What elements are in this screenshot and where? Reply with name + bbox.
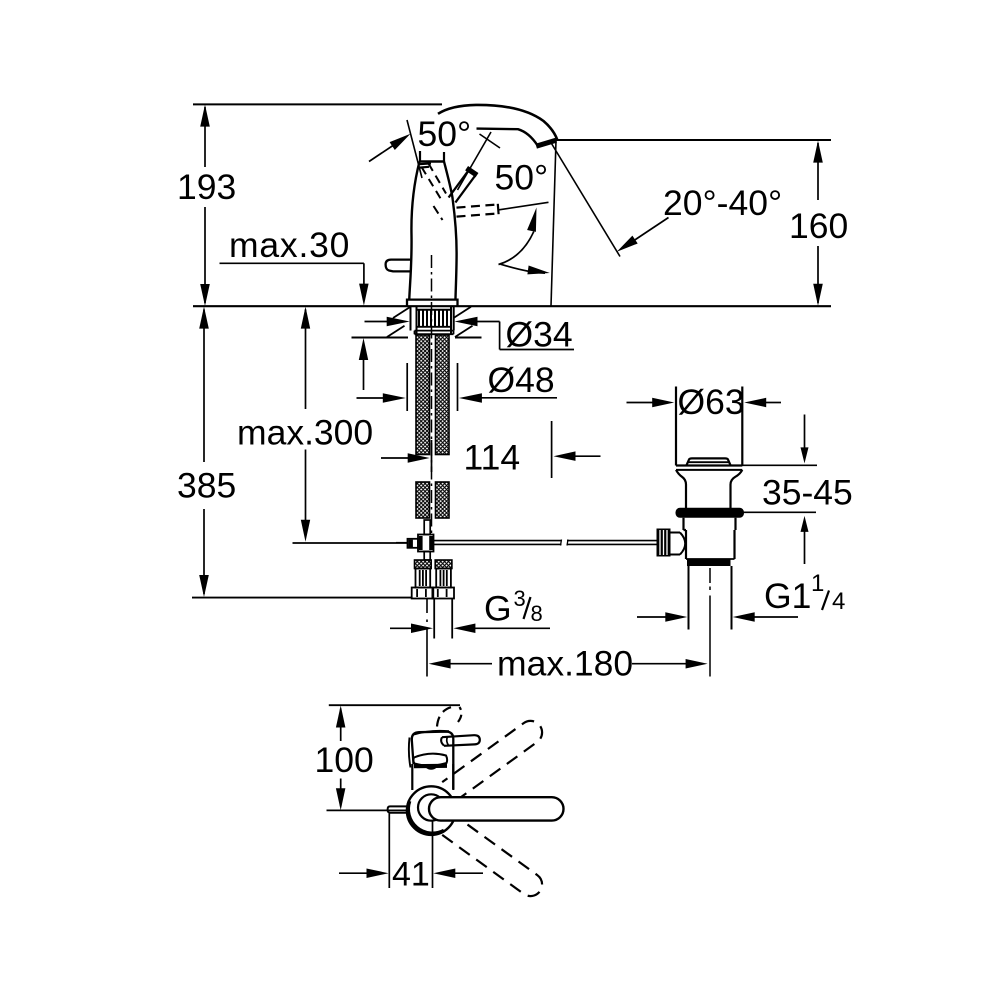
- topview trough thick edge: [414, 764, 447, 769]
- deck hatch stroke 2: [387, 326, 405, 337]
- G3/8 pipe: [433, 599, 435, 639]
- mounting knurl nut: [418, 311, 420, 327]
- dim 100 top extension: [329, 704, 460, 706]
- rod connector block: [418, 535, 434, 552]
- lever swing arc right: [501, 264, 546, 273]
- dim max300 bottom extension: [293, 542, 408, 544]
- drain knurled nut: [657, 529, 671, 557]
- svg-text:max.300: max.300: [237, 413, 373, 453]
- deck hatch stroke 3: [454, 307, 472, 318]
- hose right upper segment: [436, 335, 450, 455]
- svg-text:Ø63: Ø63: [678, 382, 745, 422]
- dim 114 tick: [431, 440, 433, 472]
- rod upper stem: [424, 520, 430, 535]
- svg-text:50°: 50°: [495, 158, 549, 198]
- water stream line: [552, 144, 621, 257]
- dim 160 extension line: [556, 139, 831, 141]
- dim 114 right ext: [551, 421, 553, 478]
- topview body sketch strokes: [409, 738, 411, 768]
- faucet neck seam and aerator: [419, 151, 421, 162]
- dim 41 right arrow: [433, 869, 455, 879]
- svg-text:4: 4: [832, 588, 845, 615]
- dim 193 arrow up: [200, 105, 210, 127]
- topview solid lever: [429, 797, 564, 820]
- topview body outline: [412, 732, 454, 789]
- dim 35-45 upper: [804, 415, 806, 450]
- svg-text:8: 8: [531, 601, 543, 626]
- svg-text:50°: 50°: [418, 114, 472, 154]
- faucet lever cap: [467, 168, 477, 175]
- dim dia63 arrows: [627, 402, 655, 404]
- topview escutcheon circle: [407, 786, 456, 835]
- topview lever pin: [442, 735, 480, 746]
- svg-text:35-45: 35-45: [762, 473, 853, 513]
- dim 41 left arrow: [339, 872, 368, 874]
- drain cylinder walls: [675, 387, 677, 466]
- dim 100 arrow up: [336, 706, 346, 728]
- topview dashed spout tip: [437, 707, 451, 726]
- faucet lever rod: [449, 171, 469, 198]
- faucet spout outline: [438, 105, 557, 140]
- dim 385 arrow down: [199, 575, 209, 597]
- dim G1-1/4 arrows: [637, 616, 666, 618]
- wire deck underside left: [352, 337, 409, 339]
- dim 114 right arrow: [554, 451, 576, 461]
- topview dashed lever down: [442, 816, 542, 896]
- faucet popup knob: [386, 260, 411, 272]
- svg-text:20°-40°: 20°-40°: [663, 183, 782, 223]
- dim 193 arrow down: [200, 284, 210, 306]
- dim 160 line: [817, 143, 819, 200]
- drain center line: [709, 568, 711, 677]
- dim max30 arrow down: [359, 284, 369, 306]
- rod lower stem: [424, 552, 430, 561]
- drain nut link: [671, 532, 681, 534]
- dim 160 arrow down: [813, 284, 823, 306]
- horizontal rod segment 1: [434, 540, 562, 542]
- faucet base flange: [407, 300, 458, 306]
- faucet internal dashed line 2: [429, 164, 447, 194]
- svg-text:114: 114: [464, 438, 521, 478]
- mounting washer: [415, 331, 454, 335]
- hose right lower segment: [436, 482, 450, 518]
- svg-text:1: 1: [811, 570, 824, 597]
- deck hatch stroke 4: [455, 326, 473, 337]
- faucet spout mouth: [536, 140, 556, 146]
- G3/8 connector right: [435, 560, 452, 569]
- faucet body outline: [409, 162, 419, 299]
- leader arrow 20-40deg: [631, 218, 669, 243]
- drain flare: [676, 470, 686, 508]
- faucet internal dashed line 1: [422, 167, 442, 200]
- drain tailpipe: [688, 566, 690, 630]
- dim max30 lower line: [363, 355, 365, 390]
- dim 114 left arrow: [381, 457, 409, 459]
- spout tip vertical line: [551, 141, 556, 307]
- drain body lower: [685, 530, 687, 559]
- lever axis line B: [458, 132, 492, 190]
- svg-text:G1: G1: [764, 576, 811, 616]
- dim max300 line: [305, 310, 307, 410]
- svg-text:Ø48: Ø48: [488, 360, 555, 400]
- wire deck underside right: [455, 337, 482, 339]
- svg-text:3: 3: [514, 586, 526, 611]
- svg-text:100: 100: [315, 740, 374, 780]
- deck hatch stroke 1: [393, 307, 411, 318]
- svg-text:385: 385: [177, 466, 236, 506]
- dim 100 line: [340, 709, 342, 742]
- topview dashed lever up: [442, 721, 542, 801]
- dim max180 right arrow: [632, 663, 686, 665]
- faucet CL lower: [426, 599, 428, 677]
- dim G3/8 arrows: [390, 627, 412, 629]
- dim dia34 arrows: [365, 321, 388, 323]
- horizontal rod segment 2: [567, 540, 660, 542]
- dim 385 arrow up: [199, 307, 209, 329]
- dim 100 bottom extension: [327, 809, 407, 811]
- dim 35-45 lower ext: [743, 511, 816, 513]
- lever swing arc up: [499, 232, 534, 265]
- axis point marker X: [480, 134, 501, 148]
- dim 35-45 upper ext: [733, 464, 817, 466]
- leader arrow 50deg: [369, 142, 399, 162]
- svg-text:160: 160: [789, 206, 848, 246]
- dim max30 leader: [220, 262, 364, 264]
- dim 35-45 lower: [801, 516, 809, 532]
- dim dia48 arrows: [357, 397, 385, 399]
- dim dia34 leader: [499, 322, 501, 350]
- svg-text:max.180: max.180: [497, 644, 633, 684]
- dim max300 arrow down: [301, 520, 310, 542]
- dim 385 line: [203, 310, 205, 463]
- drain thread band: [687, 560, 731, 567]
- dim dia48 ext lines: [406, 363, 408, 411]
- hose left upper segment: [416, 335, 430, 455]
- dim 160 arrow up: [813, 141, 823, 163]
- svg-text:Ø34: Ø34: [506, 315, 573, 355]
- dim max300 arrow up: [301, 307, 310, 329]
- lever axis line A: [407, 120, 422, 178]
- faucet internal dashed line 3: [434, 206, 443, 220]
- drain flange lip: [676, 464, 742, 466]
- svg-text:G: G: [484, 589, 512, 629]
- wire deck top line: [193, 305, 831, 307]
- drain push button: [687, 458, 731, 465]
- svg-text:193: 193: [177, 167, 236, 207]
- dim max180 left arrow: [429, 659, 451, 669]
- rod tip fitting: [408, 539, 419, 548]
- svg-text:max.30: max.30: [229, 225, 350, 265]
- wire bottom reference line: [192, 597, 412, 599]
- drain o-ring: [676, 508, 745, 518]
- svg-text:41: 41: [392, 856, 430, 894]
- topview popup stub: [388, 806, 408, 812]
- dim 100 arrow down: [336, 788, 346, 810]
- dim 41 ext lines: [388, 814, 390, 889]
- open lever axis line: [499, 202, 549, 210]
- drain body upper: [684, 518, 736, 530]
- hose left lower segment: [416, 482, 430, 518]
- dim max30 arrow up: [359, 338, 368, 360]
- rod left thin line: [396, 542, 408, 544]
- topview body lower walls: [411, 764, 413, 790]
- topview body circle: [418, 794, 444, 820]
- dim 193 line: [204, 107, 206, 167]
- faucet center line: [431, 255, 433, 534]
- topview spout trough: [413, 754, 447, 766]
- G3/8 connector left: [415, 560, 432, 569]
- wire top reference line: [193, 103, 442, 105]
- shank outer walls: [410, 306, 412, 330]
- open lever dashed rod: [457, 205, 497, 208]
